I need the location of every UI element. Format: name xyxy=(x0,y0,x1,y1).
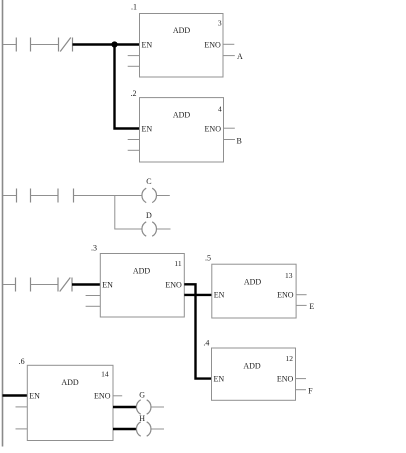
junction node rung1 xyxy=(111,41,117,47)
function block ADD U1 xyxy=(128,3,235,77)
pin stub input1 xyxy=(86,295,101,297)
coil C xyxy=(142,188,157,202)
block body xyxy=(212,348,296,400)
svg-text:C: C xyxy=(146,177,151,186)
svg-text:ADD: ADD xyxy=(173,111,191,120)
svg-text:ENO: ENO xyxy=(205,124,222,133)
svg-text:F: F xyxy=(308,386,313,395)
block body xyxy=(140,14,224,78)
pin stub input2 xyxy=(128,65,140,67)
svg-text:.2: .2 xyxy=(131,89,137,98)
svg-text:.3: .3 xyxy=(91,244,97,253)
wire rung3 bold to block3 EN xyxy=(72,283,100,285)
function block ADD U4 xyxy=(203,338,306,400)
wire bold block3 output to block5 EN xyxy=(184,294,212,296)
svg-text:3: 3 xyxy=(218,19,222,28)
pin stub output xyxy=(223,55,235,57)
pin stub input2 xyxy=(128,149,140,151)
svg-text:ADD: ADD xyxy=(243,361,261,370)
svg-text:ENO: ENO xyxy=(165,280,182,289)
coil D xyxy=(142,222,157,236)
contact (NO) rung3 first xyxy=(16,278,31,292)
block body xyxy=(27,365,113,440)
svg-text:EN: EN xyxy=(102,280,113,289)
svg-text:ENO: ENO xyxy=(204,40,221,49)
block body xyxy=(100,254,184,318)
wire rung2 to coil C xyxy=(74,195,142,197)
wire bold block6 output1 to coil G xyxy=(113,406,137,408)
function block ADD U2 xyxy=(128,89,235,162)
wire rung3 rail to contact1 xyxy=(3,284,16,286)
svg-text:13: 13 xyxy=(285,271,293,280)
svg-text:ADD: ADD xyxy=(244,277,262,286)
contact (NC) rung3 second xyxy=(58,278,72,292)
wire after coil C xyxy=(157,195,170,197)
pin stub output xyxy=(296,389,307,391)
pin stub ENO xyxy=(224,127,235,129)
svg-text:ADD: ADD xyxy=(133,267,151,276)
wire rung1 rail to contact1 xyxy=(3,44,16,46)
contact (NO) rung1 first xyxy=(16,38,30,52)
pin stub ENO xyxy=(296,378,307,380)
wire bold block6 output2 to coil H xyxy=(113,428,137,430)
wire after coil G xyxy=(151,406,164,408)
svg-text:14: 14 xyxy=(101,370,109,379)
pin stub input1 xyxy=(16,406,28,408)
left power rail xyxy=(2,0,4,447)
svg-text:12: 12 xyxy=(286,354,294,363)
function block ADD U5 xyxy=(205,253,307,318)
wire rung1 bold to block1 EN xyxy=(73,43,140,45)
pin stub input1 xyxy=(128,55,140,57)
svg-text:EN: EN xyxy=(29,391,40,400)
wire bold block3 ENO jog down xyxy=(184,284,195,295)
contact (NO) rung2 first xyxy=(17,189,31,203)
svg-text:A: A xyxy=(237,52,243,61)
svg-text:D: D xyxy=(146,211,152,220)
wire after coil D xyxy=(157,228,171,230)
svg-text:EN: EN xyxy=(214,291,225,300)
function block ADD U6 xyxy=(16,357,123,441)
pin stub output xyxy=(296,304,307,306)
wire after coil H xyxy=(151,428,164,430)
pin stub input2 xyxy=(86,305,101,307)
coil H xyxy=(136,422,151,436)
pin stub ENO xyxy=(113,395,122,397)
svg-text:ENO: ENO xyxy=(277,375,294,384)
svg-text:B: B xyxy=(237,137,242,146)
pin stub output xyxy=(224,139,236,141)
wire rung3 between contacts xyxy=(31,284,59,286)
svg-text:ADD: ADD xyxy=(173,26,191,35)
svg-text:.1: .1 xyxy=(131,3,137,12)
pin stub input2 xyxy=(16,428,28,430)
wire rung1 between contacts xyxy=(31,44,59,46)
svg-text:ENO: ENO xyxy=(94,391,111,400)
svg-text:EN: EN xyxy=(214,375,225,384)
contact (NO) rung2 second xyxy=(58,189,74,203)
svg-text:EN: EN xyxy=(142,124,153,133)
svg-text:4: 4 xyxy=(218,104,222,113)
coil G xyxy=(136,400,151,414)
svg-text:ENO: ENO xyxy=(277,291,294,300)
pin stub input1 xyxy=(128,139,140,141)
svg-text:EN: EN xyxy=(142,40,153,49)
contact (NC) rung1 second xyxy=(59,38,73,52)
svg-text:.6: .6 xyxy=(19,357,25,366)
pin stub ENO xyxy=(296,294,307,296)
wire rung2 rail to contact1 xyxy=(3,195,17,197)
wire rung2 between contacts xyxy=(31,195,59,197)
block body xyxy=(140,98,224,162)
wire rung4 bold rail to block6 EN xyxy=(3,394,28,396)
function block ADD U3 xyxy=(86,244,185,317)
wire bold branch down to block2 EN xyxy=(115,45,140,129)
svg-text:.5: .5 xyxy=(205,253,211,262)
wire branch down to coil D xyxy=(115,196,142,230)
svg-text:E: E xyxy=(309,302,314,311)
svg-text:11: 11 xyxy=(174,259,181,268)
wire bold vertical down to block4 EN xyxy=(196,295,212,379)
svg-text:G: G xyxy=(139,391,145,400)
svg-text:ADD: ADD xyxy=(61,378,79,387)
pin stub ENO xyxy=(223,43,234,45)
svg-text:.4: .4 xyxy=(203,338,209,347)
block body xyxy=(212,264,296,318)
